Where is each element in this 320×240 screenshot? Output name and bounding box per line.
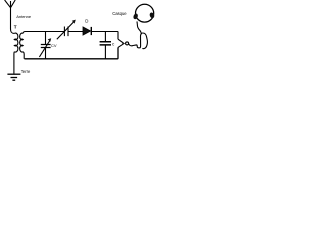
svg-text:Casque: Casque (112, 11, 127, 16)
svg-text:D: D (85, 18, 88, 23)
svg-text:CV: CV (51, 43, 57, 48)
svg-text:Antenne: Antenne (16, 14, 32, 19)
svg-text:T: T (14, 25, 17, 30)
svg-text:Terre: Terre (21, 69, 31, 74)
svg-text:c: c (112, 42, 115, 47)
